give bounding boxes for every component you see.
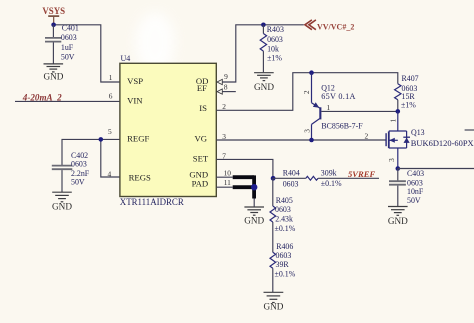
ground (R403): [254, 73, 274, 92]
node source/C403 junction: [396, 166, 401, 171]
value label C403: [407, 169, 424, 205]
svg-text:Q12: Q12: [321, 83, 335, 92]
svg-text:0603: 0603: [61, 33, 77, 42]
svg-text:10nF: 10nF: [407, 187, 424, 196]
svg-text:GND: GND: [263, 301, 283, 311]
svg-text:GND: GND: [254, 82, 274, 92]
svg-text:REGS: REGS: [129, 173, 151, 183]
capacitor C402: [52, 166, 73, 193]
svg-text:65V 0.1A: 65V 0.1A: [321, 92, 356, 101]
svg-text:0603: 0603: [267, 35, 283, 44]
node R403 junction: [261, 23, 266, 28]
value label R404: [283, 169, 342, 189]
ground (PAD): [244, 207, 264, 226]
node SET/R404/R405 junction: [271, 176, 276, 181]
svg-text:±1%: ±1%: [267, 54, 282, 63]
wire stub top right: [465, 129, 474, 131]
svg-text:6: 6: [109, 91, 113, 100]
svg-text:BUK6D120-60PX: BUK6D120-60PX: [411, 138, 474, 148]
node pad junction: [251, 184, 257, 190]
resistor R406: [270, 252, 276, 292]
svg-text:50V: 50V: [71, 177, 85, 186]
svg-text:XTR111AIDRCR: XTR111AIDRCR: [120, 197, 184, 207]
pin 9 output arrow: [217, 79, 222, 84]
svg-text:±0.1%: ±0.1%: [275, 224, 296, 233]
svg-text:50V: 50V: [61, 52, 75, 61]
svg-text:SET: SET: [193, 153, 209, 163]
node IS/emitter junction: [309, 70, 314, 75]
svg-text:VIN: VIN: [127, 95, 143, 105]
svg-text:309k: 309k: [321, 169, 337, 178]
svg-text:GND: GND: [244, 216, 264, 226]
svg-text:5: 5: [108, 127, 112, 136]
wire VSYS to pin1 VSP: [54, 25, 120, 82]
svg-text:GND: GND: [52, 202, 72, 212]
wire pin3 VG to gate: [216, 139, 385, 141]
transistor Q12 BC856B-7-F: [312, 73, 398, 140]
svg-text:C403: C403: [407, 169, 424, 178]
wire thick vertical: [252, 175, 256, 198]
svg-text:GND: GND: [388, 216, 408, 226]
value label C402: [71, 151, 90, 187]
svg-text:1uF: 1uF: [61, 43, 74, 52]
svg-text:2.43k: 2.43k: [275, 215, 293, 224]
svg-text:VSYS: VSYS: [42, 6, 65, 16]
svg-text:3: 3: [387, 158, 396, 162]
svg-text:15R: 15R: [402, 92, 416, 101]
node VG/collector junction: [309, 138, 314, 143]
wire pin7 SET down: [216, 159, 273, 178]
value label R405: [275, 196, 296, 233]
svg-text:11: 11: [224, 178, 231, 187]
value label C401: [61, 24, 79, 62]
svg-text:GND: GND: [43, 72, 63, 82]
svg-text:0603: 0603: [275, 205, 291, 214]
capacitor C403: [389, 169, 406, 207]
svg-text:±1%: ±1%: [401, 101, 416, 110]
svg-text:R407: R407: [402, 74, 419, 83]
resistor R404: [273, 176, 379, 180]
svg-text:C401: C401: [62, 24, 79, 33]
svg-text:0603: 0603: [71, 160, 87, 169]
node VSYS junction: [51, 23, 56, 28]
pin 8 output arrow: [217, 89, 222, 94]
svg-text:2: 2: [364, 132, 368, 141]
wire pin10 GND stub: [216, 176, 232, 178]
svg-text:4: 4: [107, 169, 111, 178]
wire pin10 thick: [233, 175, 254, 179]
value label R406: [275, 242, 296, 278]
wire pin11 PAD stub: [216, 186, 232, 188]
ground (C401): [43, 64, 63, 82]
wire REGF junction down to REGS: [101, 139, 120, 177]
svg-text:0603: 0603: [276, 251, 292, 260]
value label R403: [267, 25, 284, 62]
transistor Q13 BUK6D120-60PX (MOSFET): [386, 111, 410, 168]
svg-text:BC856B-7-F: BC856B-7-F: [321, 122, 363, 131]
wire 4-20mA_2 to pin6 VIN: [15, 100, 120, 102]
node R407/base/drain junction: [396, 109, 401, 114]
svg-text:R403: R403: [267, 25, 284, 34]
svg-text:8: 8: [224, 82, 228, 91]
ground (C402): [52, 192, 72, 211]
svg-text:R405: R405: [276, 196, 293, 205]
wire pin9 OD up to R403 net: [223, 25, 304, 82]
resistor R403: [260, 25, 266, 72]
net label VV/VC#_2 with chevrons: [305, 20, 354, 31]
resistor R405: [270, 178, 276, 252]
svg-text:PAD: PAD: [192, 179, 209, 189]
svg-text:39R: 39R: [276, 260, 290, 269]
svg-text:50V: 50V: [407, 196, 421, 205]
svg-text:1: 1: [389, 119, 398, 123]
wire pin2 IS up and right: [216, 73, 397, 111]
wire pin8 EF stub: [223, 91, 236, 93]
node REGF junction: [99, 137, 104, 142]
ground (R406): [263, 292, 283, 311]
value label Q12: [321, 83, 363, 130]
ground (C403): [388, 207, 408, 226]
svg-text:C402: C402: [71, 151, 88, 160]
IC U4 XTR111AIDRCR: [120, 63, 216, 196]
svg-text:VV/VC#_2: VV/VC#_2: [317, 22, 354, 31]
svg-text:IS: IS: [199, 103, 207, 113]
svg-text:1: 1: [326, 103, 330, 112]
svg-text:±0.1%: ±0.1%: [275, 269, 296, 278]
svg-text:EF: EF: [197, 83, 207, 93]
value label Q13: [411, 128, 474, 148]
resistor R407: [395, 84, 401, 112]
svg-text:REGF: REGF: [127, 134, 149, 144]
wire REGF junction to C402: [62, 139, 120, 165]
svg-text:1: 1: [109, 73, 113, 82]
capacitor C401: [45, 25, 61, 64]
svg-text:U4: U4: [121, 54, 131, 63]
power port VSYS: [42, 6, 65, 25]
svg-text:10k: 10k: [267, 44, 279, 53]
wire source junction to right edge: [398, 168, 474, 170]
svg-text:10: 10: [224, 168, 232, 177]
svg-text:VSP: VSP: [127, 76, 143, 86]
svg-text:2: 2: [302, 90, 311, 94]
wire pin11 thick: [233, 185, 252, 189]
svg-text:VG: VG: [194, 133, 207, 143]
svg-text:R404: R404: [283, 169, 300, 178]
svg-text:9: 9: [224, 72, 228, 81]
wire pad to ground: [253, 199, 255, 208]
svg-text:5VREF: 5VREF: [348, 169, 375, 179]
value label R407: [401, 74, 419, 110]
svg-text:Q13: Q13: [411, 128, 425, 137]
svg-text:3: 3: [303, 129, 312, 133]
svg-text:0603: 0603: [283, 179, 299, 188]
svg-text:R406: R406: [276, 242, 293, 251]
svg-text:±0.1%: ±0.1%: [321, 179, 342, 188]
